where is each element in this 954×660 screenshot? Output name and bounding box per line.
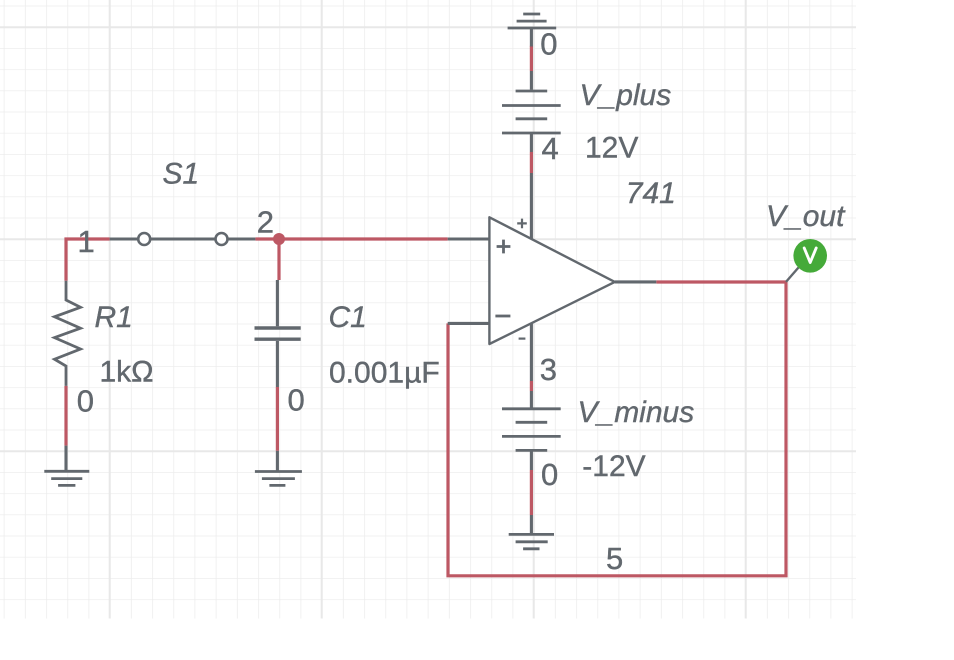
wire: node 4 V_plus to op-amp [530, 152, 533, 173]
wire: node 0 below C1 [276, 387, 279, 451]
voltmeter probe V_out [793, 239, 827, 273]
svg-text:0: 0 [541, 457, 558, 492]
svg-text:V_out: V_out [766, 200, 846, 233]
svg-text:1kΩ: 1kΩ [100, 356, 154, 389]
node label 3 [540, 352, 557, 387]
op-amp minus input lead [448, 322, 490, 325]
svg-text:0: 0 [77, 384, 94, 419]
op-amp U1 (741) [489, 217, 614, 344]
wire: node 1 horizontal and down to R1 [66, 239, 110, 281]
node 2 junction dot [273, 233, 285, 245]
svg-text:S1: S1 [163, 158, 200, 191]
op-amp V- rail pin 3 [530, 323, 533, 381]
label S1 [163, 158, 200, 191]
wire: node 2 from switch to op-amp plus input [255, 237, 447, 240]
label 741 [626, 177, 676, 210]
value 0.001µF [329, 356, 440, 389]
svg-text:5: 5 [606, 541, 623, 576]
wire: net 5 output feedback loop [448, 282, 786, 576]
resistor R1 [55, 281, 81, 386]
label V_minus [578, 396, 695, 429]
value 12V [585, 132, 638, 165]
label R1 [95, 301, 133, 334]
ground (R1) [44, 446, 89, 486]
ground (top, flipped, node 0) [508, 14, 557, 47]
node label 1 [78, 224, 95, 259]
label C1 [329, 301, 367, 334]
ground (C1) [255, 451, 302, 486]
node label 2 [257, 205, 274, 240]
svg-text:V_minus: V_minus [578, 396, 695, 429]
switch S1 [110, 233, 256, 245]
node label 0 (C1) [288, 383, 305, 418]
svg-text:2: 2 [257, 205, 274, 240]
value -12V [582, 450, 645, 483]
capacitor C1 [255, 280, 301, 387]
wire: node 0 above V_plus [530, 46, 533, 71]
op-amp V- pin minus symbol [519, 338, 526, 340]
svg-text:C1: C1 [329, 301, 367, 334]
op-amp plus input lead [448, 237, 490, 240]
node label 0 (top) [540, 27, 557, 62]
wire: node 2 down to C1 [277, 239, 280, 280]
svg-text:0: 0 [540, 27, 557, 62]
battery V_minus [502, 391, 561, 470]
svg-text:-12V: -12V [582, 450, 645, 483]
svg-text:1: 1 [78, 224, 95, 259]
op-amp V+ pin plus symbol [517, 219, 527, 229]
value 1kΩ [100, 356, 154, 389]
svg-text:3: 3 [540, 352, 557, 387]
ground (V_minus) [509, 515, 554, 549]
label V_out [766, 200, 846, 233]
battery V_plus [502, 71, 561, 152]
svg-text:4: 4 [542, 131, 559, 166]
op-amp plus input symbol [497, 240, 511, 254]
op-amp minus input symbol [495, 315, 510, 318]
svg-text:R1: R1 [95, 301, 133, 334]
svg-text:V_plus: V_plus [580, 79, 672, 112]
wire: node 0 below R1 [64, 386, 67, 446]
node label 5 [606, 541, 623, 576]
svg-text:741: 741 [626, 177, 676, 210]
node label 0 (V_minus) [541, 457, 558, 492]
op-amp V+ rail pin 4 [530, 173, 533, 239]
op-amp output lead [615, 280, 657, 283]
label V_plus [580, 79, 672, 112]
svg-text:0.001µF: 0.001µF [329, 356, 440, 389]
wire: node 3 op-amp to V_minus [530, 381, 533, 391]
wire: node 0 below V_minus [530, 470, 533, 515]
svg-text:0: 0 [288, 383, 305, 418]
node label 0 (R1) [77, 384, 94, 419]
voltmeter probe V_out stem [786, 268, 799, 282]
svg-text:12V: 12V [585, 132, 638, 165]
node label 4 [542, 131, 559, 166]
